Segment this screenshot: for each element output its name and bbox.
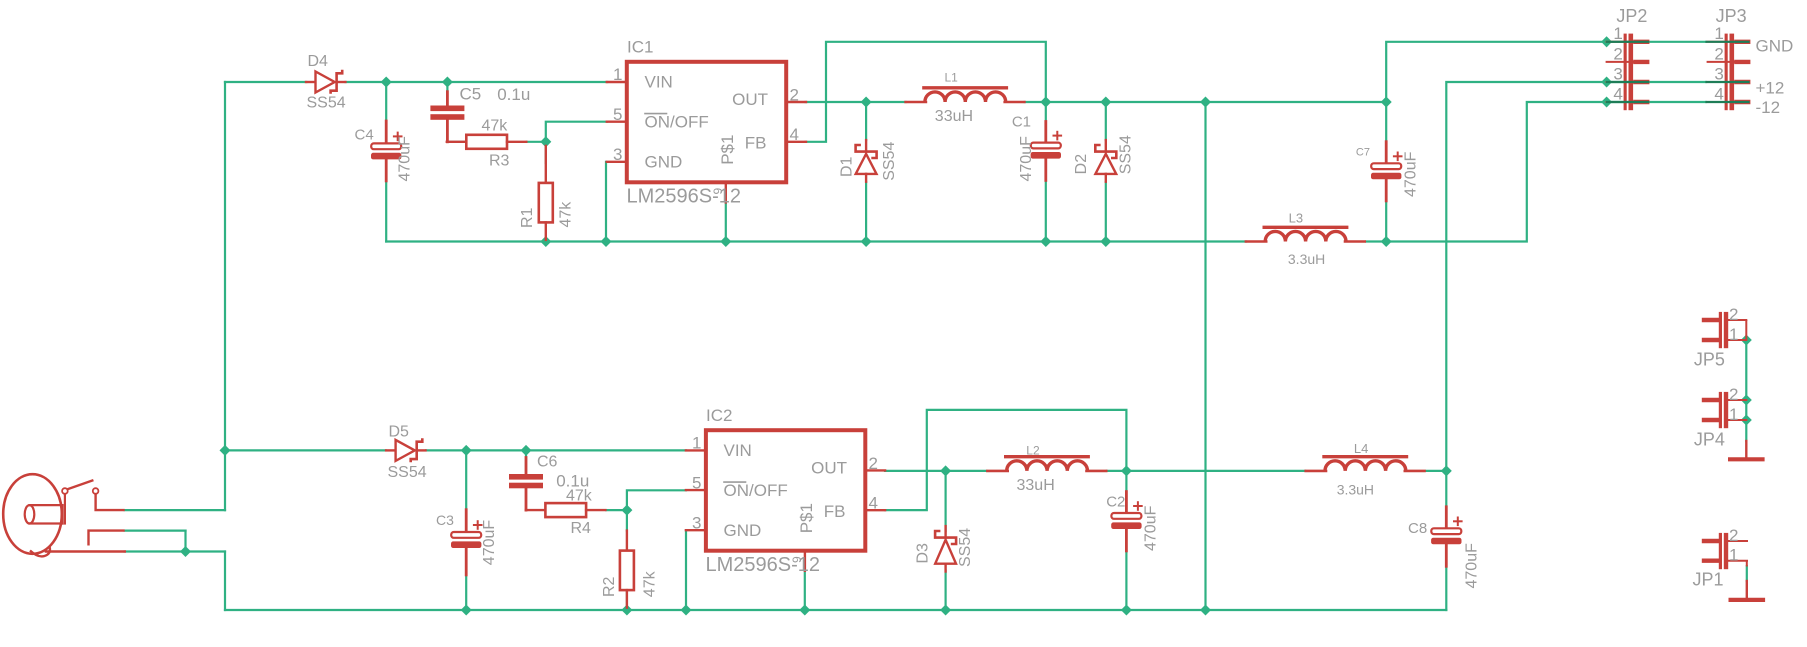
wire OUT rail C1 to D2 [1046, 101, 1106, 103]
junction IC1 GND-rail [600, 236, 611, 247]
wire R4 right to node [606, 509, 627, 511]
wire IC1 P$1 drop [725, 202, 727, 241]
wire JP2 pin4 to JP3 pin4 [1607, 101, 1706, 103]
svg-text:2: 2 [1714, 44, 1723, 63]
inductor L3 [1246, 227, 1365, 241]
svg-text:IC1: IC1 [627, 37, 653, 56]
wire R1 bottom to ground rail [545, 239, 547, 242]
wire JP2 pin3 to JP3 pin3 [1607, 81, 1706, 83]
wire L4 to C8 node [1427, 470, 1447, 472]
svg-text:JP4: JP4 [1694, 430, 1725, 450]
junction OUT2-C8 [1441, 465, 1452, 476]
wire JP1 pin1 gnd stub [1746, 566, 1748, 581]
connector JP1 header [1704, 533, 1747, 569]
junction JP2 pin4 [1601, 96, 1612, 107]
svg-text:C8: C8 [1408, 520, 1427, 537]
capacitor C8 [1431, 507, 1462, 567]
wire -12 run to JP2 pin4 [1386, 102, 1606, 242]
wire bottom VIN rail C6 to IC2 VIN [526, 449, 686, 451]
svg-text:C4: C4 [355, 127, 374, 144]
svg-text:SS54: SS54 [881, 142, 898, 181]
capacitor C2 [1111, 492, 1142, 551]
wire ON/OFF2 net [627, 490, 686, 510]
svg-text:470uF: 470uF [396, 136, 413, 182]
wire bottom rail [225, 609, 1446, 611]
svg-text:4: 4 [790, 125, 799, 144]
overline ON IC2 [724, 481, 746, 483]
svg-text:R3: R3 [489, 153, 510, 170]
junction JP4 pin1 [1741, 414, 1752, 425]
connector JP3 header [1708, 34, 1749, 111]
svg-text:C6: C6 [537, 453, 558, 470]
wire +12 riser to JP2 pin3 [1446, 82, 1606, 471]
svg-text:FB: FB [824, 502, 846, 521]
svg-text:C1: C1 [1012, 113, 1031, 130]
svg-text:JP1: JP1 [1693, 569, 1724, 589]
capacitor C5 [430, 92, 464, 142]
svg-text:2: 2 [1729, 305, 1738, 324]
junction sleeve mid-pin [180, 546, 191, 557]
svg-text:5: 5 [613, 105, 622, 124]
svg-text:1: 1 [1613, 24, 1622, 43]
wire mid riser GND net [1204, 102, 1206, 610]
resistor R2 [620, 531, 634, 608]
svg-text:9: 9 [790, 556, 804, 563]
wire D2 top lead net [1105, 102, 1107, 140]
svg-text:IC2: IC2 [706, 406, 732, 425]
svg-text:2: 2 [1729, 385, 1738, 404]
wire jack sleeve to riser [125, 550, 225, 552]
junction JP2 pin1 [1601, 36, 1612, 47]
svg-text:470uF: 470uF [1018, 136, 1035, 182]
junction OUT-C1 [1040, 96, 1051, 107]
wire overlap JP2 [1607, 41, 1648, 43]
svg-text:SS54: SS54 [388, 464, 427, 481]
svg-text:4: 4 [869, 494, 878, 513]
wire top VIN rail left of D4 [225, 81, 306, 83]
svg-text:2: 2 [790, 85, 799, 104]
svg-text:9: 9 [711, 188, 725, 195]
capacitor C3 [451, 510, 482, 575]
wire JP5 pin2 bend [1745, 320, 1747, 340]
wire D1 top lead net [865, 102, 867, 140]
wire middle-pin riser [184, 531, 186, 552]
wire C7 top riser and JP2 pin1 feed [1386, 42, 1606, 142]
junction JP5 pin1 [1741, 334, 1752, 345]
svg-text:1: 1 [692, 434, 701, 453]
wire C6 top net [525, 450, 527, 470]
svg-text:3: 3 [1714, 64, 1723, 83]
svg-text:470uF: 470uF [1143, 505, 1160, 551]
capacitor C1 [1031, 122, 1062, 181]
junction P1-rail [720, 236, 731, 247]
wire OUT2 rail C2 to L4 [1126, 470, 1305, 472]
junction R1-rail [540, 236, 551, 247]
wire R2 top net [626, 510, 628, 530]
junction C7-top [1381, 96, 1392, 107]
wire overlap JP3 [1707, 101, 1749, 103]
wire bottom VIN rail left of D5 [225, 449, 386, 451]
wire R2 bottom net [626, 590, 628, 610]
svg-text:JP5: JP5 [1694, 350, 1725, 370]
wire bottom VIN rail D5 to C3 [426, 449, 466, 451]
svg-text:47k: 47k [642, 570, 659, 597]
wire C2 bottom net [1125, 551, 1127, 611]
svg-text:3: 3 [1613, 64, 1622, 83]
wire IC2 GND drop [685, 530, 687, 610]
svg-text:C5: C5 [460, 85, 482, 104]
svg-text:R2: R2 [601, 576, 618, 597]
wire D3 to L2 [946, 470, 987, 472]
capacitor C6 [509, 458, 543, 511]
svg-text:470uF: 470uF [1464, 543, 1481, 589]
wire D1 to L1 [866, 101, 906, 103]
wire IC2 FB loop [885, 410, 1126, 510]
wire IC2 P$1 drop [804, 571, 806, 610]
op-amp IC2 LM2596S-12 regulator box [686, 430, 885, 571]
svg-text:0.1u: 0.1u [497, 85, 530, 104]
svg-text:470uF: 470uF [481, 520, 498, 566]
wire C1 bottom net [1045, 180, 1047, 242]
wire R1 top lead net [545, 142, 547, 163]
svg-text:-12: -12 [1756, 98, 1781, 117]
junction VIN-C4 [381, 76, 392, 87]
svg-text:47k: 47k [566, 487, 593, 504]
wire IC1 OUT to D1 [806, 101, 867, 103]
wire C3 bottom net [465, 575, 467, 611]
svg-text:L3: L3 [1289, 210, 1303, 225]
junction R4-R2 node [621, 505, 632, 516]
svg-text:GND: GND [1756, 37, 1794, 56]
wire C4 bottom to top ground rail [385, 181, 387, 242]
svg-text:3: 3 [692, 513, 701, 532]
wire ON/OFF net top [546, 122, 607, 142]
wire C5 bottom elbow to R3 [447, 134, 466, 142]
op-amp IC1 LM2596S-12 regulator box [607, 62, 806, 203]
inductor L2 [987, 457, 1106, 471]
svg-text:L2: L2 [1026, 443, 1040, 457]
svg-text:P$1: P$1 [797, 503, 816, 533]
svg-text:3.3uH: 3.3uH [1288, 251, 1325, 267]
wire C4 top riser [385, 82, 387, 122]
junction OUT-D1 [861, 96, 872, 107]
svg-text:2: 2 [1729, 526, 1738, 545]
svg-text:D1: D1 [838, 156, 855, 177]
svg-text:1: 1 [1729, 405, 1738, 424]
svg-text:47k: 47k [482, 118, 509, 135]
svg-text:OUT: OUT [811, 459, 847, 478]
svg-text:33uH: 33uH [1017, 477, 1055, 494]
svg-text:47k: 47k [558, 201, 575, 228]
svg-text:33uH: 33uH [935, 108, 973, 125]
wire top VIN rail C5 to IC1 VIN [447, 81, 607, 83]
wire D2 bottom net [1105, 182, 1107, 242]
svg-text:FB: FB [745, 133, 767, 152]
junction midriser-rail [1200, 604, 1211, 615]
svg-text:4: 4 [1613, 84, 1622, 103]
wire C8 vertical net [1445, 471, 1447, 507]
wire D1 bottom net [865, 182, 867, 242]
junction D2-rail [1100, 236, 1111, 247]
junction VIN-C5 [442, 76, 453, 87]
junction VIN2-C3 [461, 445, 472, 456]
junction OUT-D2 [1100, 96, 1111, 107]
junction OUT2-D3 [940, 465, 951, 476]
junction left riser D5 branch [219, 445, 230, 456]
capacitor C4 [371, 121, 402, 181]
svg-text:SS54: SS54 [957, 528, 974, 567]
wire JP1 pin1 bend [1746, 561, 1748, 567]
svg-text:R4: R4 [571, 520, 592, 537]
svg-text:C3: C3 [436, 512, 454, 528]
svg-text:1: 1 [1729, 325, 1738, 344]
wire overlap JP2 [1607, 101, 1648, 103]
wire IC1 GND drop [605, 162, 607, 242]
wire D3 bottom net [944, 571, 946, 611]
diode D2 [1095, 140, 1116, 182]
inductor L1 [906, 88, 1025, 102]
connector JP5 header [1704, 312, 1746, 348]
junction R3-R1 node [540, 136, 551, 147]
junction VIN2-C6 [520, 445, 531, 456]
ground below JP4 [1730, 441, 1762, 459]
svg-text:GND: GND [645, 152, 683, 171]
wire top VIN rail D4 to C4 [346, 81, 387, 83]
junction C7-rail [1381, 236, 1392, 247]
svg-text:C7: C7 [1356, 147, 1370, 159]
connector X1 barrel jack [3, 474, 125, 556]
wire L1 to C1 node [1025, 101, 1046, 103]
svg-text:P$1: P$1 [718, 135, 737, 165]
wire JP5 pin1 to JP4 and gnd [1745, 340, 1747, 441]
wire L2 to C2 node [1107, 470, 1127, 472]
junction JP4 pin2 [1741, 394, 1752, 405]
wire bottom VIN rail C3 to C6 [466, 449, 526, 451]
svg-text:3: 3 [613, 145, 622, 164]
svg-text:SS54: SS54 [1118, 135, 1135, 174]
diode D4 [306, 70, 345, 94]
svg-text:+12: +12 [1756, 78, 1785, 97]
wire overlap JP2 [1607, 81, 1648, 83]
wire IC2 OUT to D3 [885, 470, 946, 472]
svg-text:4: 4 [1714, 84, 1723, 103]
wire sleeve riser down to bottom rail [224, 552, 226, 611]
wire IC1 FB loop [806, 42, 1046, 142]
wire C5 top riser [446, 82, 448, 92]
svg-text:ON/OFF: ON/OFF [724, 481, 788, 500]
inductor L4 [1306, 457, 1425, 471]
svg-text:1: 1 [1714, 24, 1723, 43]
svg-text:3.3uH: 3.3uH [1337, 482, 1374, 498]
wire C3 top net [465, 450, 467, 510]
svg-text:VIN: VIN [645, 73, 673, 92]
svg-text:JP3: JP3 [1716, 6, 1747, 26]
junction JP2 pin3 [1601, 76, 1612, 87]
wire left riser x=225 [224, 82, 226, 510]
junction C2-rail [1121, 604, 1132, 615]
svg-text:JP2: JP2 [1616, 6, 1647, 26]
diode D5 [386, 438, 425, 462]
svg-text:L4: L4 [1354, 441, 1368, 456]
junction P1b-rail [799, 604, 810, 615]
svg-text:L1: L1 [945, 71, 959, 85]
svg-text:5: 5 [692, 473, 701, 492]
svg-text:C2: C2 [1106, 494, 1125, 511]
overline ON IC1 [645, 113, 667, 115]
svg-text:D5: D5 [389, 423, 410, 440]
diode D3 [935, 526, 956, 571]
wire top ground rail L3 to C7 [1366, 240, 1386, 242]
junction D1-rail [861, 236, 872, 247]
svg-text:OUT: OUT [732, 90, 768, 109]
resistor R3 [447, 135, 527, 149]
resistor R4 [526, 503, 606, 517]
wire overlap JP3 [1707, 81, 1749, 83]
wire C7 bottom net [1385, 201, 1387, 242]
wire C1 top net [1045, 102, 1047, 122]
svg-text:470uF: 470uF [1403, 151, 1420, 197]
wire jack middle-pin drop [125, 529, 186, 531]
wire C8 bottom net [1445, 566, 1447, 610]
svg-text:VIN: VIN [724, 441, 752, 460]
svg-text:1: 1 [1729, 546, 1738, 565]
junction R2-rail [621, 604, 632, 615]
diode D1 [856, 140, 877, 182]
junction C1-rail [1040, 236, 1051, 247]
wire OUT rail D2 to C7 node [1106, 101, 1386, 103]
wire overlap JP3 [1707, 41, 1749, 43]
wire D3 top net [944, 471, 946, 531]
svg-text:ON/OFF: ON/OFF [645, 112, 709, 131]
svg-text:2: 2 [869, 454, 878, 473]
wire R3 right to node [527, 141, 546, 143]
svg-text:D4: D4 [308, 53, 329, 70]
svg-text:1: 1 [613, 65, 622, 84]
wire C2 top net [1125, 471, 1127, 492]
svg-text:D3: D3 [915, 543, 932, 564]
resistor R1 [539, 146, 553, 240]
svg-text:GND: GND [724, 521, 762, 540]
wire JP2 pin1 to JP3 pin1 [1607, 41, 1706, 43]
ground below JP1 [1731, 581, 1763, 600]
connector JP4 header [1704, 392, 1746, 428]
svg-text:2: 2 [1613, 44, 1622, 63]
capacitor C7 [1371, 142, 1402, 201]
svg-text:D2: D2 [1073, 154, 1090, 175]
svg-text:R1: R1 [519, 207, 536, 228]
wire top VIN rail C4 to C5 [386, 81, 447, 83]
wire jack tip-switch to left riser [125, 509, 225, 511]
connector JP2 header [1607, 34, 1648, 111]
junction OUT-midriser [1200, 96, 1211, 107]
junction IC2 GND-rail [680, 604, 691, 615]
junction C3-rail [461, 604, 472, 615]
junction OUT2-C2 [1121, 465, 1132, 476]
wire top ground rail [386, 240, 1246, 242]
svg-text:SS54: SS54 [307, 95, 346, 112]
junction D3-rail [940, 604, 951, 615]
